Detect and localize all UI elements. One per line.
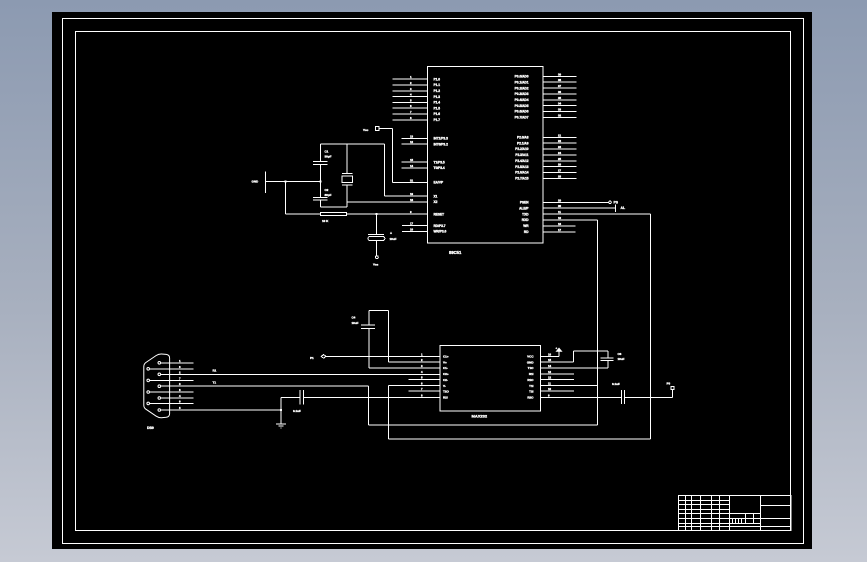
capacitor C3 body [368, 237, 385, 241]
node VCC pad [376, 127, 380, 131]
wire X1 vertical feed [384, 144, 386, 196]
svg-text:V-: V- [443, 384, 446, 388]
svg-text:37: 37 [558, 84, 562, 88]
node J1 pin 7 circle [147, 379, 150, 382]
wire VCC feed to EA pin [391, 129, 393, 183]
capacitor C4 top lead [368, 311, 370, 326]
wire U1 pin 17 RD/P3.7 [402, 225, 427, 227]
svg-text:V+: V+ [443, 360, 447, 364]
svg-text:P0.0/AD0: P0.0/AD0 [515, 75, 529, 79]
wire U1 pin 12 INT0/P3.2 [402, 143, 428, 145]
svg-text:C2+: C2+ [443, 372, 449, 376]
node J1 pin 3 circle [158, 385, 161, 388]
wire U1 pin 37 P0.2/AD2 [543, 87, 577, 89]
wire U1 pin 34 P0.5/AD5 [543, 105, 577, 107]
svg-text:17: 17 [558, 228, 562, 232]
svg-text:P0.3/AD3: P0.3/AD3 [515, 92, 529, 96]
svg-text:P2.7/A15: P2.7/A15 [515, 177, 529, 181]
svg-text:P2.3/A11: P2.3/A11 [515, 153, 528, 157]
svg-text:P1.2: P1.2 [434, 89, 441, 93]
wire U2 pin12 stub [541, 379, 574, 381]
capacitor C6 top lead [607, 351, 609, 358]
wire U1 pin 10 RXD long net right [543, 219, 597, 221]
wire crystal bottom lead [346, 185, 348, 207]
svg-text:RESET: RESET [434, 212, 445, 216]
svg-text:11: 11 [548, 382, 551, 386]
svg-text:30: 30 [558, 204, 562, 208]
wire J1 pin1 stub [161, 362, 194, 364]
wire U1 pin 23 P2.2/A10 [543, 148, 577, 150]
svg-text:P2.4/A12: P2.4/A12 [515, 159, 529, 163]
capacitor C5 plates [299, 390, 301, 404]
wire loop A bottom [369, 424, 598, 426]
wire U1 pin 13 INT1/P3.3 [402, 137, 428, 139]
svg-text:P2.5/A13: P2.5/A13 [515, 165, 529, 169]
wire U1 pin 11 TXD long net right [543, 213, 651, 215]
wire U1 pin 2 P1.1 [392, 84, 427, 86]
node J1 pin 1 circle [158, 362, 161, 365]
title block middle cells [730, 513, 761, 515]
wire U2 pin15 to C6 [541, 361, 574, 363]
svg-text:C2-: C2- [443, 378, 448, 382]
wire J1 pin5 to ground junction [161, 409, 281, 411]
svg-text:P2.2/A10: P2.2/A10 [515, 147, 529, 151]
svg-text:P1.0: P1.0 [434, 77, 441, 81]
svg-text:27: 27 [558, 169, 562, 173]
svg-text:17: 17 [410, 222, 414, 226]
svg-text:11: 11 [558, 210, 561, 214]
svg-text:P0.7/AD7: P0.7/AD7 [515, 116, 529, 120]
wire U1 pin 30 ALE/P [543, 207, 616, 209]
svg-text:10uF: 10uF [618, 357, 625, 361]
wire loop A vertical left [368, 386, 370, 425]
svg-text:P2.1/A9: P2.1/A9 [517, 141, 529, 145]
svg-text:T1I: T1I [529, 384, 534, 388]
svg-text:28: 28 [558, 174, 562, 178]
capacitor C2 plates [313, 197, 328, 199]
svg-text:GND: GND [252, 180, 260, 184]
svg-text:X1: X1 [434, 194, 438, 198]
wire U2 pin14 return from C6 [541, 367, 609, 369]
svg-text:10uF: 10uF [352, 321, 359, 325]
wire U1 pin 1 P1.0 [392, 78, 427, 80]
wire U1 pin 15 T1/P3.5 [402, 161, 428, 163]
svg-text:33: 33 [558, 108, 562, 112]
svg-text:VCC: VCC [527, 355, 534, 359]
wire reset net left segment [286, 213, 321, 215]
svg-text:34: 34 [558, 102, 562, 106]
svg-text:EA/VP: EA/VP [434, 181, 444, 185]
wire J1 pin7 stub [150, 379, 194, 381]
svg-text:38: 38 [558, 78, 562, 82]
svg-text:P2.6/A14: P2.6/A14 [515, 171, 529, 175]
wire loop B vertical [387, 386, 389, 440]
wire U1 pin 8 P1.7 [392, 119, 427, 121]
capacitor C7 plates [621, 390, 623, 404]
title block rows (left grid) [679, 500, 730, 502]
svg-text:0.1uF: 0.1uF [612, 382, 620, 386]
svg-text:89C51: 89C51 [449, 250, 462, 255]
svg-text:ALE/P: ALE/P [519, 206, 529, 210]
wire C7 to pad [625, 396, 673, 398]
wire C6 bottom lead [607, 360, 609, 368]
wire C4 bottom lead to pin3 [368, 328, 370, 368]
svg-text:12: 12 [548, 376, 552, 380]
wire U1 pin 5 P1.4 [392, 101, 427, 103]
wire U1 pin 9 RESET [347, 213, 428, 215]
wire U2 pin16 VCC [541, 355, 560, 357]
svg-text:25: 25 [558, 157, 562, 161]
node port pad P3 [671, 387, 674, 390]
svg-text:PSEN: PSEN [520, 201, 529, 205]
wire U2 pin6 from loop [388, 385, 440, 387]
node PSEN terminal circle [609, 201, 612, 204]
wire U1 pin 28 P2.7/A15 [543, 177, 577, 179]
svg-text:P0.2/AD2: P0.2/AD2 [515, 86, 529, 90]
svg-text:T2I: T2I [529, 389, 534, 393]
svg-text:14: 14 [410, 164, 414, 168]
svg-text:T1: T1 [213, 381, 217, 385]
wire U1 pin 6 P1.5 [392, 107, 427, 109]
svg-text:R2O: R2O [527, 396, 534, 400]
wire U1 pin 36 P0.3/AD3 [543, 93, 577, 95]
wire gnd junction vertical [280, 397, 282, 423]
svg-text:P1.4: P1.4 [434, 101, 441, 105]
svg-text:T2O: T2O [443, 389, 450, 393]
svg-text:10 K: 10 K [322, 219, 329, 223]
wire C1 bottom lead [320, 164, 322, 197]
svg-text:10: 10 [548, 387, 552, 391]
svg-text:26: 26 [558, 163, 562, 167]
svg-text:X2: X2 [434, 200, 438, 204]
svg-text:P0.5/AD5: P0.5/AD5 [515, 104, 529, 108]
wire U1 pin 17b RD stub [543, 231, 576, 233]
svg-text:WR/P3.6: WR/P3.6 [434, 230, 447, 234]
wire J1 pin6 stub [150, 368, 194, 370]
svg-text:36: 36 [558, 90, 562, 94]
title block verticals [685, 496, 687, 531]
svg-text:P3: P3 [667, 381, 671, 385]
svg-text:35: 35 [558, 96, 562, 100]
wire U1 pin 38 P0.1/AD1 [543, 81, 577, 83]
svg-text:MAX232: MAX232 [472, 414, 488, 419]
svg-text:P1.3: P1.3 [434, 95, 441, 99]
wire U2 pin11 to RXD vertical [541, 385, 598, 387]
svg-text:15: 15 [548, 358, 552, 362]
node port diamond P1 [321, 355, 326, 359]
wire crystal bottom rail [321, 206, 348, 208]
capacitor C1 plates [313, 161, 328, 163]
svg-text:INT0/P3.2: INT0/P3.2 [434, 142, 449, 146]
wire U1 pin 31 EA/VP [392, 181, 427, 183]
svg-text:P1: P1 [310, 356, 314, 360]
svg-text:13: 13 [410, 134, 414, 138]
wire C3 bottom lead [376, 240, 378, 255]
svg-text:31: 31 [410, 178, 414, 182]
resistor R1 [321, 213, 347, 216]
svg-text:13: 13 [548, 370, 552, 374]
wire U2 pin1 from port [326, 355, 440, 357]
wire U2 pin10 stub [541, 390, 574, 392]
wire J1 pin8 stub [150, 391, 194, 393]
crystal Y1 body [342, 176, 353, 183]
wire crystal top lead [346, 144, 348, 173]
svg-text:INT1/P3.3: INT1/P3.3 [434, 137, 449, 141]
svg-text:T0/P3.4: T0/P3.4 [434, 166, 445, 170]
node J1 pin 5 circle [158, 409, 161, 412]
wire U1 pin 27 P2.6/A14 [543, 172, 577, 174]
wire U1 pin 21 P2.0/A8 [543, 136, 577, 138]
svg-text:23: 23 [558, 145, 562, 149]
node J1 pin 2 circle [158, 373, 161, 376]
wire U1 pin 39 P0.0/AD0 [543, 75, 577, 77]
wire U2 pin2 [388, 361, 440, 363]
svg-text:29: 29 [558, 198, 562, 202]
svg-text:RD/P3.7: RD/P3.7 [434, 224, 446, 228]
svg-text:30pF: 30pF [325, 193, 332, 197]
svg-text:12: 12 [410, 140, 414, 144]
crystal Y1 bottom plate [342, 184, 353, 186]
wire U2 pin5 stub [409, 379, 440, 381]
svg-text:30pF: 30pF [325, 154, 332, 158]
svg-text:16: 16 [558, 222, 562, 226]
node ALE terminal tick [615, 204, 617, 212]
title block right rows [761, 505, 792, 507]
svg-text:+: + [390, 232, 392, 236]
svg-text:Vcc: Vcc [363, 128, 369, 132]
svg-text:10uF: 10uF [390, 237, 397, 241]
svg-text:Vss: Vss [373, 263, 379, 267]
svg-text:P0.4/AD4: P0.4/AD4 [515, 98, 529, 102]
svg-text:24: 24 [558, 151, 562, 155]
svg-text:GND: GND [527, 360, 535, 364]
op-amp U1 89C51 MCU body [428, 67, 544, 244]
svg-text:R2I: R2I [443, 396, 448, 400]
sheet inner border [76, 32, 791, 531]
wire U1 pin 19 X1 [385, 195, 428, 197]
svg-text:16: 16 [410, 228, 414, 232]
wire U2 pin7 stub [409, 390, 440, 392]
svg-text:32: 32 [558, 113, 562, 117]
connector J1 DB9 outline [144, 354, 170, 418]
wire U1 pin 14 T0/P3.4 [402, 167, 428, 169]
svg-text:T1O: T1O [528, 366, 535, 370]
node J1 pin 8 circle [147, 391, 150, 394]
svg-text:R1I: R1I [529, 372, 534, 376]
wire C4 loop vertical right [387, 311, 389, 363]
capacitor C3 electrolytic top plate [368, 233, 384, 235]
title block outline [679, 496, 792, 531]
svg-text:TXD: TXD [522, 212, 529, 216]
svg-text:C1: C1 [325, 150, 329, 154]
wire J1 pin4 stub [161, 397, 194, 399]
svg-text:R1O: R1O [527, 378, 534, 382]
wire U1 pin 33 P0.6/AD6 [543, 111, 577, 113]
wire U1 pin 26 P2.5/A13 [543, 166, 577, 168]
op-amp U2 MAX232 body [440, 346, 541, 412]
node J1 pin 6 circle [147, 368, 150, 371]
svg-text:P1.1: P1.1 [434, 83, 441, 87]
wire crystal top rail [321, 143, 385, 145]
svg-text:16: 16 [548, 352, 552, 356]
wire junction down to reset line [285, 182, 287, 215]
svg-text:14: 14 [548, 364, 552, 368]
crystal Y1 top plate [342, 172, 353, 174]
wire U1 pin 16b WR stub [543, 225, 576, 227]
capacitor C6 plates [601, 357, 614, 359]
node GND pad under C3 [376, 256, 379, 259]
wire RXD vertical down to MAX232 loop [596, 220, 598, 425]
ground symbol [276, 423, 286, 425]
wire reset junction down to C3 [376, 214, 378, 234]
wire U2 pin8 from C7 cap [303, 396, 440, 398]
svg-text:C2: C2 [325, 188, 329, 192]
svg-text:C1+: C1+ [443, 355, 449, 359]
svg-text:P1.5: P1.5 [434, 106, 441, 110]
ground bar symbol GND rail [264, 172, 266, 193]
capacitor C1 top plate lead [320, 144, 322, 162]
node J1 pin 9 circle [147, 402, 150, 405]
svg-text:P1.6: P1.6 [434, 112, 441, 116]
power VCC arrow symbol [558, 350, 560, 356]
wire U2 pin3 [369, 367, 440, 369]
node J1 pin 4 circle [158, 397, 161, 400]
wire J1 pin3 long to loop A [161, 385, 369, 387]
wire J1 pin9 stub [150, 402, 194, 404]
node junction gnd wire [285, 181, 287, 183]
svg-text:C1-: C1- [443, 366, 448, 370]
node junction reset/cap [376, 213, 378, 215]
svg-text:C4: C4 [352, 316, 356, 320]
wire TXD vertical down to MAX232 loop [650, 214, 652, 439]
svg-text:18: 18 [410, 198, 414, 202]
wire U1 pin 29 PSEN [543, 201, 609, 203]
wire U2 pin9 long to port [541, 396, 622, 398]
svg-text:DB9: DB9 [147, 426, 154, 430]
svg-text:22: 22 [558, 139, 562, 143]
wire C4 loop top [369, 310, 388, 312]
svg-text:P2.0/A8: P2.0/A8 [517, 136, 529, 140]
wire U1 pin 16 WR/P3.6 [402, 231, 427, 233]
svg-text:39: 39 [558, 72, 562, 76]
svg-text:19: 19 [410, 192, 414, 196]
wire U1 pin 24 P2.3/A11 [543, 154, 577, 156]
wire U1 pin 32 P0.7/AD7 [543, 116, 577, 118]
svg-text:RXD: RXD [522, 218, 529, 222]
svg-text:C6: C6 [618, 352, 622, 356]
svg-text:WR: WR [523, 224, 529, 228]
node junction pin5/gnd [280, 409, 282, 411]
wire U2 pin13 stub [541, 373, 574, 375]
wire junction to C5 [281, 396, 300, 398]
wire U1 pin 18 X2 [347, 201, 427, 203]
svg-text:RD: RD [524, 230, 529, 234]
svg-text:T1/P3.5: T1/P3.5 [434, 160, 445, 164]
sheet outer border [63, 19, 804, 544]
wire U2 pin4 from DB9 pin2 [161, 373, 441, 375]
svg-text:AL: AL [621, 206, 626, 210]
wire C2 bottom lead [320, 200, 322, 207]
svg-text:R1: R1 [213, 369, 217, 373]
wire U1 pin 3 P1.2 [392, 90, 427, 92]
wire U1 pin 7 P1.6 [392, 113, 427, 115]
svg-text:P0.1/AD1: P0.1/AD1 [515, 80, 529, 84]
wire ground rail to caps [265, 181, 320, 183]
svg-text:P1.7: P1.7 [434, 118, 441, 122]
svg-text:PS: PS [614, 201, 619, 205]
svg-text:15: 15 [410, 158, 414, 162]
capacitor C4 plates [361, 324, 375, 326]
svg-text:10: 10 [558, 216, 562, 220]
svg-text:P0.6/AD6: P0.6/AD6 [515, 110, 529, 114]
wire U1 pin 35 P0.4/AD4 [543, 99, 577, 101]
wire U1 pin 4 P1.3 [392, 96, 427, 98]
wire U1 pin 22 P2.1/A9 [543, 142, 577, 144]
svg-text:21: 21 [558, 133, 562, 137]
wire loop B bottom [388, 438, 650, 440]
svg-text:0.1uF: 0.1uF [293, 409, 301, 413]
wire U1 pin 25 P2.4/A12 [543, 160, 577, 162]
